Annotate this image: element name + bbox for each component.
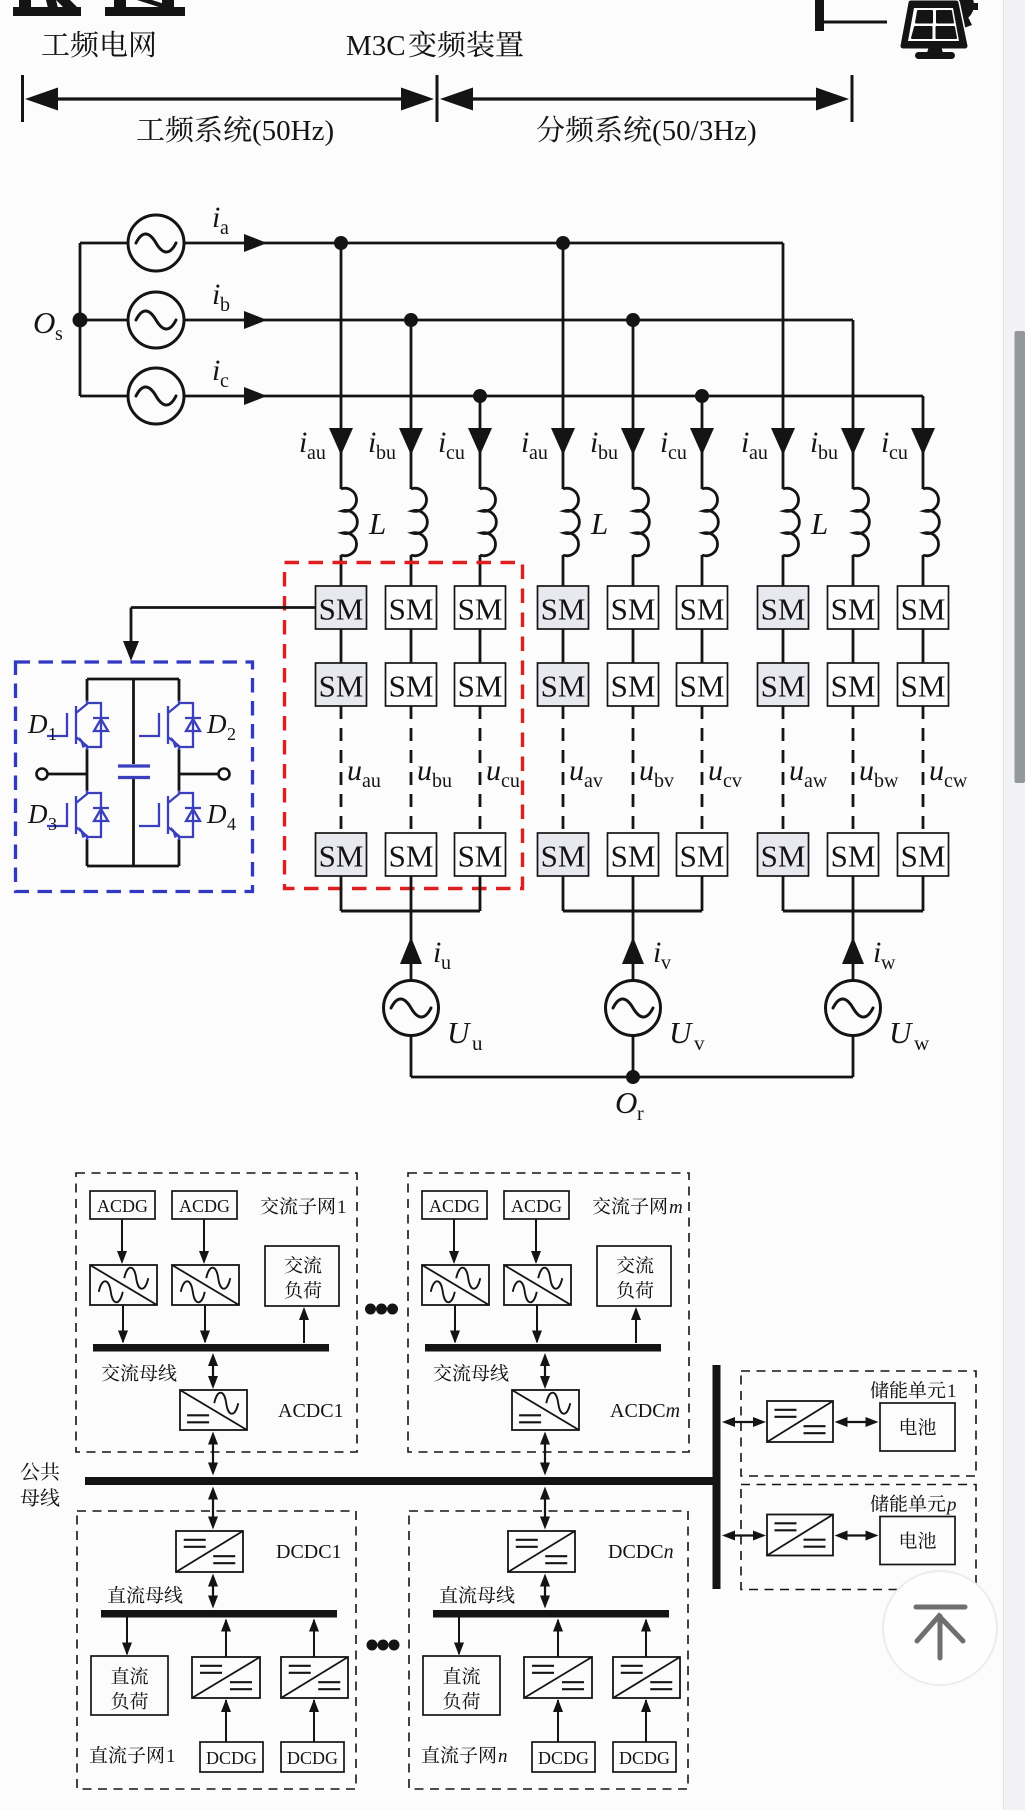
- svg-text:s: s: [55, 323, 63, 345]
- svg-text:D: D: [27, 799, 48, 829]
- AC subnet dashed box m: [408, 1173, 689, 1452]
- svg-text:DCDG: DCDG: [619, 1748, 670, 1768]
- wire SM1-SM2 column 2: [410, 629, 413, 663]
- AC-AC converter a: [90, 1265, 157, 1305]
- wire Uu to neutral: [410, 1036, 413, 1078]
- ellipsis between DC subnets: [367, 1640, 378, 1651]
- submodule SM row1 column 3: [455, 586, 506, 629]
- wire SM3-join column 9: [922, 876, 925, 911]
- svg-text:SM: SM: [541, 669, 586, 704]
- DC-DC interface converter: [508, 1531, 575, 1572]
- branch wire column 5: [632, 320, 635, 489]
- svg-text:cu: cu: [889, 442, 908, 464]
- svg-text:L: L: [368, 506, 386, 541]
- svg-text:1: 1: [48, 724, 57, 744]
- svg-text:u: u: [569, 754, 584, 787]
- wire SM1-SM2 column 5: [632, 629, 635, 663]
- svg-text:4: 4: [227, 814, 236, 834]
- arrow iu: [400, 937, 422, 964]
- branch arrow column 6: [690, 428, 714, 455]
- DC-DC converter a: [524, 1657, 592, 1698]
- frequency span dimension line: [21, 75, 24, 122]
- svg-text:M3C: M3C: [346, 30, 406, 62]
- double arrow DCDC to DC bus: [544, 1578, 546, 1605]
- svg-text:c: c: [220, 370, 229, 392]
- svg-text:u: u: [472, 1031, 483, 1055]
- svg-text:m: m: [669, 1197, 683, 1218]
- AC-AC converter b: [504, 1265, 571, 1305]
- svg-text:u: u: [417, 754, 432, 787]
- double arrow AC bus to ACDC: [212, 1357, 214, 1385]
- label 工频系统(50Hz): [137, 116, 251, 143]
- svg-text:SM: SM: [831, 669, 876, 704]
- battery box 电池: [880, 1517, 955, 1565]
- inductor L column 8: [853, 488, 869, 555]
- wire SM3-join column 6: [701, 876, 704, 911]
- left AC terminal: [37, 769, 48, 780]
- H-bridge top rail: [87, 678, 179, 681]
- svg-text:av: av: [584, 770, 603, 792]
- submodule SM row3 column 5: [608, 833, 659, 876]
- DC bus bar 直流母线: [433, 1610, 669, 1618]
- inductor L column 9: [923, 488, 939, 555]
- svg-text:(50Hz): (50Hz): [252, 115, 334, 147]
- svg-text:au: au: [529, 442, 548, 464]
- svg-text:bu: bu: [432, 770, 452, 792]
- svg-text:cu: cu: [668, 442, 687, 464]
- generator box ACDG b: [172, 1191, 237, 1219]
- submodule SM row2 column 1: [316, 663, 367, 706]
- svg-text:SM: SM: [319, 839, 364, 874]
- arrow ib: [244, 311, 267, 329]
- DC subnet dashed box 1: [77, 1511, 356, 1789]
- node Os: [73, 313, 88, 328]
- wire SM3-join column 4: [562, 876, 565, 911]
- svg-text:SM: SM: [901, 669, 946, 704]
- submodule SM row2 column 9: [898, 663, 949, 706]
- wire SM1-SM2 column 9: [922, 629, 925, 663]
- svg-text:SM: SM: [541, 592, 586, 627]
- arrow DCDG b to converter: [645, 1700, 647, 1742]
- svg-text:bv: bv: [654, 770, 674, 792]
- submodule SM row1 column 4: [538, 586, 589, 629]
- svg-text:SM: SM: [458, 669, 503, 704]
- label 交流子网m: [593, 1197, 667, 1215]
- dashed arm wire column 4: [562, 706, 565, 833]
- source Uu circle: [384, 981, 439, 1036]
- branch arrow column 9: [911, 428, 935, 455]
- submodule SM row3 column 9: [898, 833, 949, 876]
- arrow DCDG a to converter: [557, 1700, 559, 1742]
- svg-text:w: w: [881, 952, 896, 974]
- label 分频系统(50/3Hz): [537, 115, 651, 142]
- submodule SM row3 column 4: [538, 833, 589, 876]
- svg-text:SM: SM: [389, 592, 434, 627]
- AC load box 交流负荷: [265, 1246, 339, 1306]
- svg-text:v: v: [694, 1031, 705, 1055]
- svg-text:u: u: [859, 754, 874, 787]
- svg-text:U: U: [669, 1015, 694, 1050]
- source Uw circle: [826, 981, 881, 1036]
- AC subnet dashed box 1: [76, 1173, 357, 1452]
- arm join bar group 1: [341, 910, 480, 913]
- arrow converter a to AC bus: [122, 1305, 124, 1342]
- branch wire column 1: [340, 243, 343, 489]
- branch wire column 6: [701, 396, 704, 489]
- arm join bar group 3: [783, 910, 923, 913]
- wire SM1-SM2 column 4: [562, 629, 565, 663]
- branch arrow column 1: [329, 428, 353, 455]
- arrow converter a to DC bus: [225, 1620, 227, 1657]
- svg-text:L: L: [590, 506, 608, 541]
- inductor L column 2: [411, 488, 427, 555]
- label 交流母线: [434, 1364, 509, 1382]
- svg-text:au: au: [307, 442, 326, 464]
- svg-text:1: 1: [166, 1746, 176, 1767]
- double arrow DCDC to DC bus: [212, 1578, 214, 1605]
- blue dashed submodule detail box: [16, 662, 253, 892]
- junction dots on phase wires: [334, 236, 348, 250]
- double arrow bus to storage converter: [726, 1421, 762, 1423]
- svg-text:cu: cu: [501, 770, 520, 792]
- scrollbar thumb: [1015, 331, 1025, 783]
- wire SM1-SM2 column 7: [782, 629, 785, 663]
- svg-text:ACDG: ACDG: [429, 1196, 480, 1216]
- branch wire column 9: [922, 396, 925, 489]
- svg-text:bw: bw: [874, 770, 899, 792]
- svg-text:SM: SM: [901, 839, 946, 874]
- energy storage unit dashed box 1: [741, 1371, 976, 1476]
- cropped icon fragment top-left 2: [105, 7, 185, 16]
- svg-text:DCDC1: DCDC1: [276, 1541, 342, 1563]
- phase c wire: [184, 395, 923, 398]
- svg-text:SM: SM: [458, 839, 503, 874]
- submodule SM row3 column 2: [386, 833, 437, 876]
- source ia circle: [128, 215, 184, 271]
- phase b wire: [184, 319, 853, 322]
- submodule SM row2 column 2: [386, 663, 437, 706]
- svg-text:D: D: [27, 709, 48, 739]
- svg-text:SM: SM: [611, 592, 656, 627]
- svg-text:L: L: [810, 506, 828, 541]
- arrow ACDG b to converter: [203, 1219, 205, 1262]
- svg-text:SM: SM: [761, 669, 806, 704]
- output wire iv: [632, 911, 635, 981]
- arrow ic: [244, 387, 267, 405]
- svg-text:r: r: [637, 1103, 644, 1125]
- IGBT D2: [139, 700, 201, 750]
- arrow DC bus to DC load: [458, 1617, 460, 1654]
- IGBT D3: [47, 790, 109, 840]
- submodule SM row3 column 3: [455, 833, 506, 876]
- svg-text:w: w: [914, 1031, 930, 1055]
- svg-text:SM: SM: [319, 592, 364, 627]
- double arrow storage converter to battery: [839, 1534, 875, 1536]
- svg-text:u: u: [639, 754, 654, 787]
- svg-text:O: O: [615, 1085, 637, 1120]
- energy storage unit dashed box p: [741, 1485, 976, 1590]
- callout arrow: [123, 641, 139, 661]
- submodule SM row2 column 5: [608, 663, 659, 706]
- AC bus bar 交流母线: [93, 1344, 329, 1352]
- svg-text:u: u: [486, 754, 501, 787]
- AC-DC interface converter: [180, 1390, 247, 1430]
- H-bridge left leg wire: [86, 679, 89, 701]
- arrow DC bus to DC load: [126, 1617, 128, 1654]
- DC-DC converter b: [613, 1657, 680, 1698]
- arrow converter b to AC bus: [204, 1305, 206, 1342]
- wire SM3-join column 3: [479, 876, 482, 911]
- branch wire column 2: [410, 320, 413, 489]
- svg-text:SM: SM: [680, 669, 725, 704]
- DC subnet dashed box n: [409, 1511, 688, 1789]
- generator box DCDG b: [613, 1742, 676, 1772]
- label 直流子网1: [90, 1746, 164, 1764]
- wire SM3-join column 1: [340, 876, 343, 911]
- DC bus bar 直流母线: [101, 1610, 337, 1618]
- branch wire column 8: [852, 320, 855, 489]
- inductor L column 7: [783, 488, 799, 555]
- branch arrow column 5: [621, 428, 645, 455]
- DC load box 直流负荷: [423, 1656, 500, 1715]
- svg-text:DCDG: DCDG: [206, 1748, 257, 1768]
- svg-text:SM: SM: [319, 669, 364, 704]
- svg-text:1: 1: [337, 1197, 347, 1218]
- svg-text:SM: SM: [389, 839, 434, 874]
- phase a wire: [184, 242, 783, 245]
- label 直流母线: [440, 1586, 515, 1604]
- node Os bus wire: [79, 243, 82, 396]
- svg-text:ACDG: ACDG: [97, 1196, 148, 1216]
- dashed arm wire column 1: [340, 706, 343, 833]
- red dashed box around first converter column group: [285, 563, 523, 889]
- DC-DC converter b: [281, 1657, 348, 1698]
- branch arrow column 2: [399, 428, 423, 455]
- branch arrow column 8: [841, 428, 865, 455]
- svg-text:bu: bu: [598, 442, 618, 464]
- cropped pole icon top-right: [815, 0, 824, 31]
- svg-text:O: O: [33, 305, 55, 340]
- source Uv circle: [606, 981, 661, 1036]
- svg-text:aw: aw: [804, 770, 828, 792]
- svg-text:SM: SM: [389, 669, 434, 704]
- svg-text:SM: SM: [901, 592, 946, 627]
- arrow converter b to AC bus: [536, 1305, 538, 1342]
- svg-text:SM: SM: [680, 592, 725, 627]
- AC bus bar 交流母线: [425, 1344, 661, 1352]
- dashed arm wire column 3: [479, 706, 482, 833]
- scrollbar track: [1004, 0, 1025, 1810]
- dashed arm wire column 7: [782, 706, 785, 833]
- submodule SM row2 column 7: [758, 663, 809, 706]
- label 交流子网1: [261, 1197, 335, 1215]
- submodule SM row2 column 3: [455, 663, 506, 706]
- svg-text:SM: SM: [831, 592, 876, 627]
- source ic circle: [128, 368, 184, 424]
- svg-text:DCDCn: DCDCn: [608, 1541, 674, 1563]
- double arrow common bus to DCDC: [544, 1491, 546, 1526]
- branch arrow column 4: [551, 428, 575, 455]
- output wire iu: [410, 911, 413, 981]
- svg-text:SM: SM: [541, 839, 586, 874]
- svg-text:SM: SM: [761, 592, 806, 627]
- svg-text:u: u: [347, 754, 362, 787]
- double arrow AC bus to ACDC: [544, 1357, 546, 1385]
- generator box DCDG a: [532, 1742, 595, 1772]
- submodule SM row1 column 2: [386, 586, 437, 629]
- AC load box 交流负荷: [597, 1246, 671, 1306]
- submodule SM row1 column 6: [677, 586, 728, 629]
- svg-text:cv: cv: [723, 770, 742, 792]
- svg-text:SM: SM: [680, 839, 725, 874]
- DC-DC converter a: [192, 1657, 260, 1698]
- svg-text:au: au: [362, 770, 381, 792]
- submodule SM row3 column 1: [316, 833, 367, 876]
- capacitor C plates: [118, 764, 150, 767]
- svg-text:ACDCm: ACDCm: [610, 1400, 680, 1422]
- svg-text:a: a: [220, 217, 229, 239]
- svg-text:bu: bu: [376, 442, 396, 464]
- storage DC-DC converter: [767, 1515, 833, 1556]
- arrow converter a to DC bus: [557, 1620, 559, 1657]
- dashed arm wire column 9: [922, 706, 925, 833]
- ellipsis between AC subnets: [365, 1304, 376, 1315]
- svg-text:u: u: [708, 754, 723, 787]
- branch wire column 4: [562, 243, 565, 489]
- IGBT D4: [139, 790, 201, 840]
- branch wire column 3: [479, 396, 482, 489]
- storage DC-DC converter: [767, 1401, 833, 1442]
- inductor L column 4: [563, 488, 579, 555]
- back to top button: [883, 1571, 997, 1685]
- arrow DCDG a to converter: [225, 1700, 227, 1742]
- wire SM3-join column 2: [410, 876, 413, 911]
- svg-text:SM: SM: [611, 839, 656, 874]
- svg-text:U: U: [447, 1015, 472, 1050]
- wire SM1-SM2 column 6: [701, 629, 704, 663]
- generator box DCDG a: [200, 1742, 263, 1772]
- submodule SM row1 column 5: [608, 586, 659, 629]
- arrow AC bus to AC load: [635, 1309, 637, 1343]
- submodule SM row2 column 8: [828, 663, 879, 706]
- double arrow storage converter to battery: [839, 1421, 875, 1423]
- arrow iv: [622, 937, 644, 964]
- svg-text:ACDG: ACDG: [511, 1196, 562, 1216]
- label 公共母线: [21, 1462, 60, 1480]
- arrow DCDG b to converter: [313, 1700, 315, 1742]
- inductor L column 3: [480, 488, 496, 555]
- wire SM1-SM2 column 3: [479, 629, 482, 663]
- submodule SM row1 column 1: [316, 586, 367, 629]
- dashed arm wire column 8: [852, 706, 855, 833]
- svg-text:SM: SM: [611, 669, 656, 704]
- svg-text:D: D: [206, 709, 227, 739]
- submodule SM row2 column 4: [538, 663, 589, 706]
- double arrow ACDC to common bus: [544, 1436, 546, 1472]
- branch arrow column 7: [771, 428, 795, 455]
- arm join bar group 2: [563, 910, 702, 913]
- arrow converter b to DC bus: [645, 1620, 647, 1657]
- svg-text:1: 1: [947, 1381, 957, 1402]
- svg-text:DCDG: DCDG: [287, 1748, 338, 1768]
- arrow AC bus to AC load: [303, 1309, 305, 1343]
- arrow ACDG a to converter: [121, 1219, 123, 1262]
- label 储能单元1: [871, 1381, 946, 1399]
- svg-text:b: b: [220, 294, 230, 316]
- svg-text:SM: SM: [761, 839, 806, 874]
- branch wire column 7: [782, 243, 785, 489]
- submodule SM row3 column 8: [828, 833, 879, 876]
- svg-text:p: p: [945, 1495, 957, 1516]
- arrow iw: [842, 937, 864, 964]
- submodule SM row1 column 7: [758, 586, 809, 629]
- wire Uw to neutral: [852, 1036, 855, 1078]
- wire SM3-join column 8: [852, 876, 855, 911]
- source ib circle: [128, 292, 184, 348]
- svg-text:DCDG: DCDG: [538, 1748, 589, 1768]
- double arrow ACDC to common bus: [212, 1436, 214, 1472]
- inductor L column 1: [341, 488, 357, 555]
- submodule SM row2 column 6: [677, 663, 728, 706]
- svg-text:u: u: [929, 754, 944, 787]
- common bus bar vertical: [713, 1365, 721, 1589]
- AC-AC converter a: [422, 1265, 489, 1305]
- H-bridge bottom rail: [87, 865, 179, 868]
- output wire iw: [852, 911, 855, 981]
- wire SM1-SM2 column 1: [340, 629, 343, 663]
- svg-text:u: u: [441, 952, 451, 974]
- inductor L column 5: [633, 488, 649, 555]
- common bus bar horizontal: [85, 1477, 717, 1485]
- arrow ACDG a to converter: [453, 1219, 455, 1262]
- generator box DCDG b: [281, 1742, 344, 1772]
- wire SM1-SM2 column 8: [852, 629, 855, 663]
- cropped icon fragment top-left 1: [13, 7, 81, 16]
- arrow ia: [244, 234, 267, 252]
- AC-AC converter b: [172, 1265, 239, 1305]
- svg-text:v: v: [661, 952, 671, 974]
- dashed arm wire column 2: [410, 706, 413, 833]
- battery box 电池: [880, 1403, 955, 1451]
- inductor L column 6: [702, 488, 718, 555]
- svg-text:3: 3: [48, 814, 57, 834]
- svg-text:D: D: [206, 799, 227, 829]
- label 直流母线: [108, 1586, 183, 1604]
- label 储能单元p: [871, 1494, 946, 1512]
- submodule SM row3 column 6: [677, 833, 728, 876]
- label 交流母线: [102, 1364, 177, 1382]
- svg-text:au: au: [749, 442, 768, 464]
- svg-text:cw: cw: [944, 770, 968, 792]
- svg-text:ACDC1: ACDC1: [278, 1400, 344, 1422]
- double arrow common bus to DCDC: [212, 1491, 214, 1526]
- arrow converter b to DC bus: [313, 1620, 315, 1657]
- right AC terminal: [219, 769, 230, 780]
- wire Uv to neutral: [632, 1036, 635, 1078]
- svg-text:u: u: [789, 754, 804, 787]
- label 直流子网n: [422, 1746, 496, 1764]
- svg-text:SM: SM: [831, 839, 876, 874]
- dashed arm wire column 5: [632, 706, 635, 833]
- submodule SM row3 column 7: [758, 833, 809, 876]
- H-bridge right leg wire: [178, 679, 181, 701]
- svg-text:(50/3Hz): (50/3Hz): [652, 115, 757, 147]
- arrow converter a to AC bus: [454, 1305, 456, 1342]
- callout wire to SM: [131, 606, 315, 609]
- svg-text:cu: cu: [446, 442, 465, 464]
- svg-text:2: 2: [227, 724, 236, 744]
- dashed arm wire column 6: [701, 706, 704, 833]
